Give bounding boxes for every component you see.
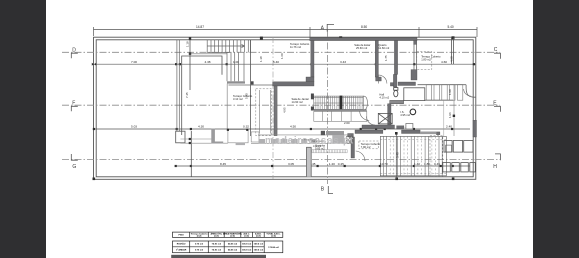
- marker E: [494, 106, 500, 112]
- section line F-E: [62, 104, 500, 106]
- table header text: [178, 232, 280, 237]
- kitchen island rect: [228, 130, 248, 143]
- planters row 2: [443, 163, 476, 172]
- svg-text:170.86 m2: 170.86 m2: [268, 247, 279, 249]
- patio mid wall x=177: [177, 40, 179, 131]
- svg-text:64.05 m2: 64.05 m2: [228, 243, 238, 246]
- kitchen right wall: [348, 134, 354, 138]
- kitchen L-shaped gray wall: [211, 129, 223, 144]
- dimension diamonds y=166: [175, 165, 454, 167]
- door arc hall bottom: [360, 111, 370, 121]
- quarto door jog: [376, 77, 382, 81]
- svg-text:(m2): (m2): [214, 236, 219, 238]
- staircase newel dark bar: [340, 96, 343, 110]
- wall horizontal y=82 right: [398, 82, 416, 86]
- door arc quarto: [378, 75, 387, 84]
- stairwell-island connector line: [226, 84, 228, 130]
- dimension line y=129: [94, 128, 470, 130]
- top stair treads: [207, 40, 250, 53]
- room label Terraco Coberto small: [421, 55, 441, 62]
- marker D: [71, 53, 78, 58]
- table body text: [176, 243, 280, 252]
- acc box (white): [404, 88, 425, 101]
- dimension line y=166: [176, 165, 470, 167]
- svg-text:0.76 m2: 0.76 m2: [195, 244, 204, 246]
- top dimension line: [94, 27, 478, 37]
- hall wall piece: [390, 83, 394, 86]
- bottom deck vertical lines: [380, 136, 446, 175]
- svg-text:76.81 m2: 76.81 m2: [212, 244, 222, 246]
- svg-text:64.05 m2: 64.05 m2: [228, 249, 238, 252]
- door arc kitchen right: [356, 151, 365, 161]
- marker G: [71, 154, 78, 160]
- top stair direction line with arrow: [207, 45, 244, 48]
- room label Terraco Coberto mid: [233, 94, 253, 101]
- wall step up: [306, 77, 314, 82]
- bottom walls y=131: [355, 130, 383, 134]
- svg-text:(m2): (m2): [230, 236, 235, 238]
- vertical dim line x454: [453, 85, 455, 136]
- hall right wall vertical: [393, 74, 397, 87]
- dimension labels y=166: [220, 162, 440, 166]
- lower stairwell vertical lines: [227, 52, 244, 81]
- svg-text:(m2): (m2): [244, 236, 249, 238]
- grid dash-dot line x=273: [272, 37, 274, 179]
- svg-text:105.8 m2: 105.8 m2: [242, 250, 252, 252]
- door arc right of stair: [367, 117, 376, 126]
- svg-text:R/CHÃO: R/CHÃO: [177, 243, 186, 246]
- patio roof edge line: [189, 53, 227, 55]
- svg-text:0.76 m2: 0.76 m2: [195, 250, 204, 252]
- stair right wall line: [250, 40, 252, 136]
- table dark footer bar: [171, 255, 266, 258]
- wall left of sala de estar: [311, 40, 314, 77]
- hatched strip left of kitchen wall: [312, 150, 347, 153]
- marker B: [328, 186, 333, 194]
- cabinet band under stair: [314, 111, 367, 121]
- window lines right of quarto: [414, 44, 417, 69]
- shower box with X: [378, 113, 392, 124]
- deck dim diamond top: [395, 132, 398, 135]
- svg-text:(m2): (m2): [256, 236, 261, 238]
- fireplace box: [176, 131, 185, 143]
- dimension diamonds y=64: [92, 63, 475, 66]
- svg-text:1º ANDAR: 1º ANDAR: [176, 249, 187, 252]
- room label Cozinha: [315, 144, 325, 151]
- laundry labels: [304, 140, 325, 148]
- stair left end dark caps: [311, 94, 314, 100]
- kitchen counter blobs: [259, 135, 345, 144]
- toilet: [394, 88, 398, 97]
- sala de jantar left wall: [274, 86, 277, 136]
- marker C: [494, 53, 500, 59]
- room label Hall: [379, 93, 389, 100]
- wall junction marks top wall: [93, 36, 455, 180]
- svg-text:76.81 m2: 76.81 m2: [212, 250, 222, 252]
- dashed projection rect patio: [256, 89, 272, 136]
- dimension diamonds y=129: [93, 128, 453, 130]
- left dark sidebar: [0, 0, 46, 258]
- wall horizontal y=82 left: [273, 82, 314, 86]
- right dark sidebar: [533, 0, 579, 258]
- wash basin circle: [410, 109, 416, 115]
- table header row: [173, 232, 283, 237]
- thin wall line y85 patio: [229, 84, 273, 86]
- outer boundary wall (double rectangle): [94, 37, 476, 179]
- section line G-H: [62, 159, 500, 161]
- room label Quarto: [378, 43, 390, 50]
- main house top wall (thick): [310, 38, 417, 41]
- dashed box left of deck: [430, 136, 443, 177]
- wall between sala de estar and quarto: [375, 40, 378, 77]
- dimension line y=64: [94, 63, 476, 65]
- stairwell bottom bar: [227, 81, 245, 83]
- kitchen diamonds: [189, 129, 249, 144]
- dark kitchen elements: [321, 131, 325, 135]
- room label IS: [400, 110, 410, 117]
- wall top-right corner segment: [414, 40, 417, 44]
- deck center dim line vertical: [395, 133, 397, 180]
- dimension labels y=129: [131, 125, 452, 129]
- vertical dim diamonds x190: [189, 37, 191, 55]
- wall right jog: [411, 70, 417, 80]
- room label Sala de Estar: [354, 43, 370, 50]
- laundry wall pair: [306, 148, 311, 177]
- room label Terraco Coberto top-left: [290, 42, 310, 49]
- small wall corner left of sala jantar wall: [251, 81, 254, 84]
- svg-text:105.8 m2: 105.8 m2: [242, 244, 252, 246]
- patio room outline below stairs: [182, 40, 222, 177]
- dimension labels y=64: [131, 60, 447, 64]
- svg-text:169.6 m2: 169.6 m2: [254, 244, 264, 246]
- marker H: [495, 154, 500, 160]
- right side wall dark: [473, 120, 477, 137]
- inner thin partitions top-right porch: [452, 38, 454, 64]
- svg-text:(m2): (m2): [271, 236, 276, 238]
- middle staircase treads: [316, 96, 362, 109]
- projection inner lines: [260, 90, 271, 134]
- deck dashed joists: [380, 136, 446, 175]
- outdoor stair boundary with curve: [418, 85, 477, 101]
- wall right of quarto: [394, 40, 397, 74]
- middle staircase: [314, 96, 364, 109]
- marker F: [71, 106, 78, 111]
- planters row 1: [444, 141, 473, 153]
- dashed label box terraco coberto small: [417, 52, 432, 70]
- wall bottom of IS: [362, 125, 395, 129]
- fixture box below IS: [406, 124, 413, 130]
- kitchen counter line: [180, 135, 351, 143]
- section line D-C (horizontal dash-dot): [62, 51, 500, 53]
- section line A-B (vertical dash-dot): [326, 30, 328, 184]
- kitchen gray slab: [236, 143, 245, 145]
- room label Sala de Jantar: [292, 97, 309, 104]
- small grid vent: [446, 145, 452, 152]
- kitchen small rect: [251, 132, 259, 142]
- marker A: [327, 24, 334, 31]
- table body rows: [173, 241, 283, 253]
- right outdoor stair treads: [426, 85, 463, 101]
- svg-text:PISO: PISO: [178, 235, 184, 237]
- stair end curve: [363, 96, 367, 110]
- stove burners: [346, 136, 353, 143]
- room label Terraco Coberto bottom: [359, 141, 379, 149]
- staircase bottom rail bar: [314, 109, 367, 111]
- door arc right side: [464, 89, 471, 96]
- svg-text:(m2): (m2): [197, 236, 202, 238]
- svg-text:169.6 m2: 169.6 m2: [254, 250, 264, 252]
